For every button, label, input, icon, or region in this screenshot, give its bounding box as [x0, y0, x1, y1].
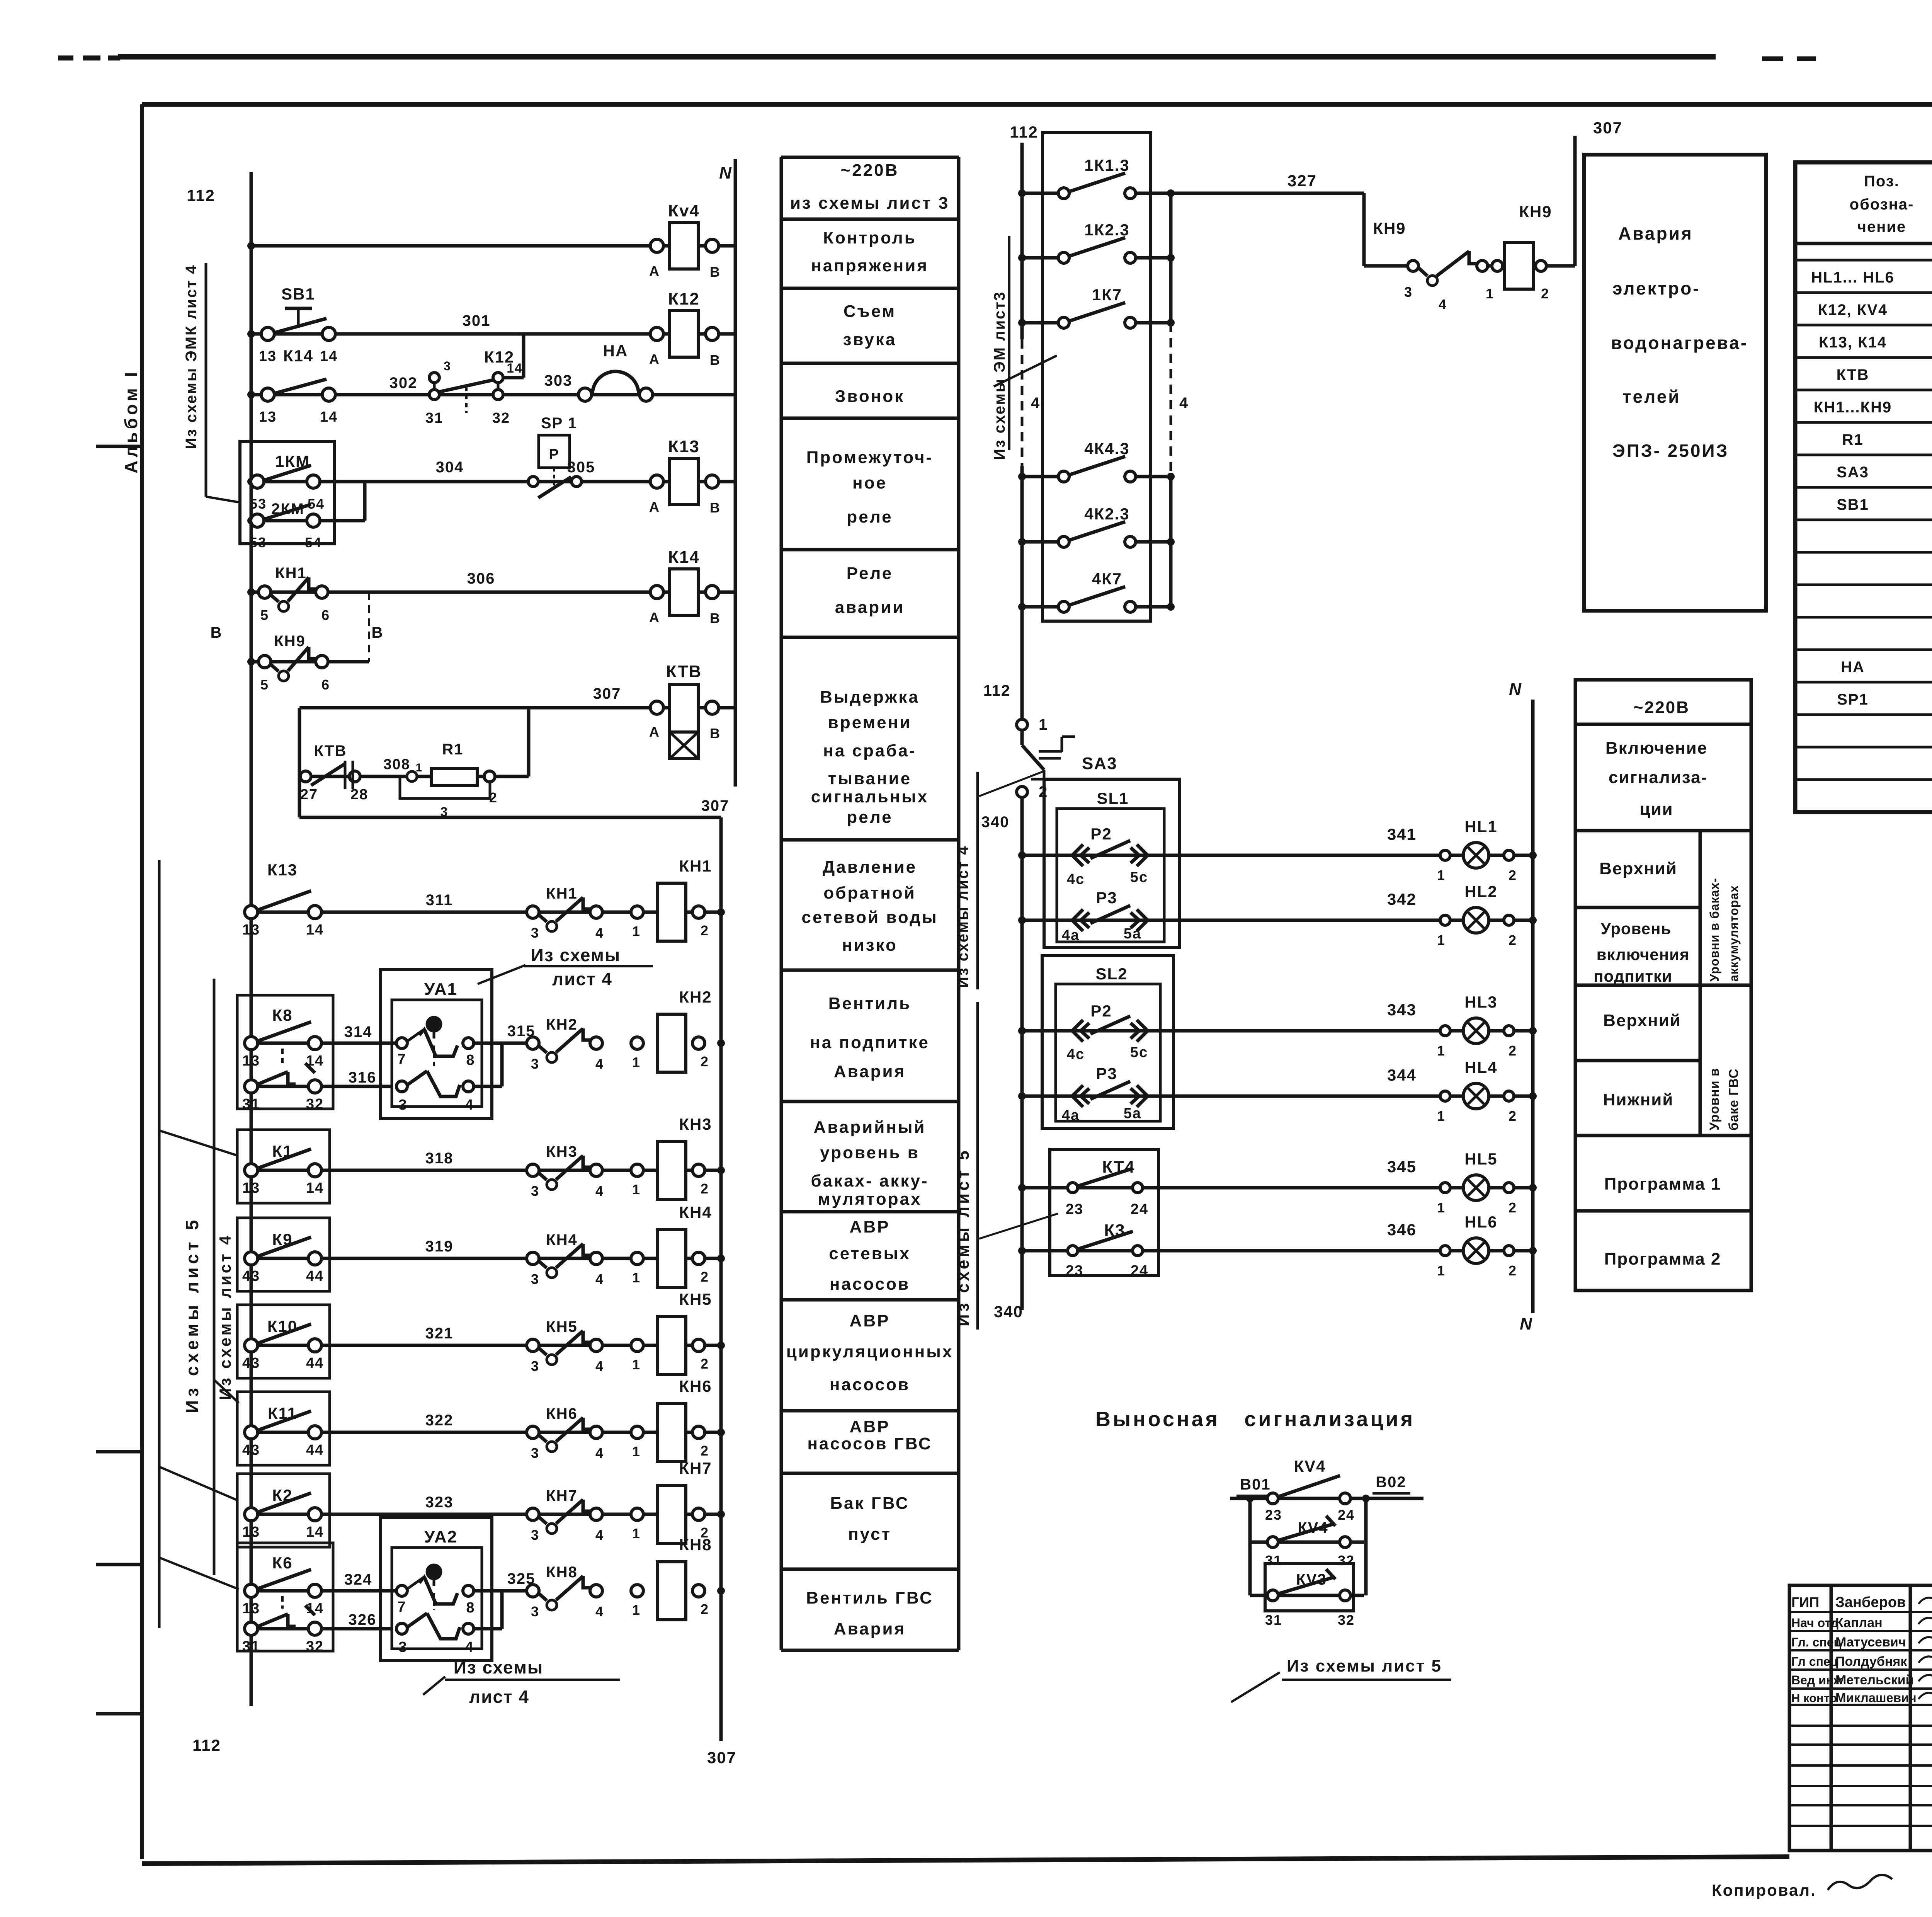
svg-text:SA3: SA3 — [1837, 464, 1869, 481]
svg-text:КV4: КV4 — [1294, 1457, 1326, 1475]
svg-text:2: 2 — [1509, 1108, 1517, 1124]
svg-text:311: 311 — [426, 892, 453, 909]
svg-text:1: 1 — [632, 1444, 641, 1459]
svg-text:КН9: КН9 — [274, 633, 306, 650]
svg-text:44: 44 — [306, 1442, 324, 1458]
svg-text:14: 14 — [306, 1053, 324, 1069]
svg-text:24: 24 — [1131, 1263, 1148, 1279]
svg-text:Выносная сигнализация: Выносная сигнализация — [1095, 1408, 1415, 1431]
svg-text:23: 23 — [1265, 1507, 1282, 1523]
svg-text:КV3: КV3 — [1296, 1571, 1327, 1588]
svg-text:К9: К9 — [272, 1230, 293, 1248]
svg-text:К14: К14 — [668, 548, 700, 567]
svg-text:КН4: КН4 — [679, 1203, 712, 1221]
svg-text:54: 54 — [305, 535, 322, 550]
svg-text:телей: телей — [1622, 386, 1681, 407]
svg-text:5: 5 — [260, 607, 269, 623]
svg-text:23: 23 — [1066, 1201, 1083, 1217]
svg-text:5: 5 — [260, 677, 269, 693]
svg-text:1: 1 — [1437, 1263, 1446, 1279]
svg-text:43: 43 — [242, 1268, 260, 1284]
svg-text:Звонок: Звонок — [835, 387, 905, 406]
svg-text:6: 6 — [321, 607, 330, 623]
svg-text:13: 13 — [242, 1524, 260, 1540]
svg-text:SL2: SL2 — [1095, 965, 1128, 983]
svg-text:Из схемы лист 5: Из схемы лист 5 — [954, 1148, 973, 1326]
svg-text:Уровни в баках-: Уровни в баках- — [1708, 878, 1721, 982]
svg-text:2: 2 — [701, 1601, 709, 1617]
svg-text:КТ4: КТ4 — [1102, 1158, 1135, 1176]
svg-text:подпитки: подпитки — [1594, 967, 1672, 985]
svg-text:1К1.3: 1К1.3 — [1084, 156, 1129, 174]
svg-text:SB1: SB1 — [281, 285, 315, 303]
svg-text:Р3: Р3 — [1096, 889, 1117, 907]
svg-text:N: N — [1509, 680, 1522, 699]
svg-text:Миклашевич: Миклашевич — [1835, 1691, 1917, 1705]
svg-text:КН6: КН6 — [679, 1377, 712, 1395]
svg-text:Авария: Авария — [834, 1062, 906, 1081]
svg-text:КН2: КН2 — [546, 1016, 578, 1033]
svg-text:2: 2 — [1509, 1200, 1517, 1216]
svg-text:1: 1 — [1437, 1043, 1446, 1059]
svg-text:1: 1 — [632, 1525, 641, 1541]
svg-text:303: 303 — [544, 372, 573, 389]
svg-text:пуст: пуст — [848, 1525, 891, 1544]
svg-text:1: 1 — [632, 1182, 641, 1197]
svg-text:2: 2 — [1039, 783, 1048, 800]
svg-text:304: 304 — [436, 459, 464, 476]
svg-text:КН1: КН1 — [275, 565, 307, 582]
svg-text:SA3: SA3 — [1082, 754, 1117, 773]
svg-text:SB1: SB1 — [1837, 496, 1869, 513]
svg-text:8: 8 — [466, 1600, 475, 1616]
svg-text:14: 14 — [320, 409, 338, 425]
svg-text:54: 54 — [308, 496, 325, 512]
svg-text:Копировал.: Копировал. — [1712, 1881, 1816, 1899]
svg-text:1: 1 — [1437, 1108, 1446, 1124]
svg-text:6: 6 — [321, 677, 330, 693]
svg-text:2: 2 — [1509, 932, 1517, 948]
svg-text:баках- акку-: баках- акку- — [811, 1171, 929, 1190]
svg-text:Из схемы ЭМК лист 4: Из схемы ЭМК лист 4 — [183, 264, 200, 449]
svg-text:3: 3 — [531, 1183, 539, 1199]
svg-text:5а: 5а — [1124, 926, 1141, 942]
svg-text:3: 3 — [531, 1358, 539, 1374]
svg-text:4: 4 — [465, 1639, 474, 1655]
svg-text:КН3: КН3 — [679, 1115, 712, 1133]
svg-text:HL2: HL2 — [1464, 882, 1497, 901]
svg-text:Кv4: Кv4 — [668, 201, 700, 220]
svg-text:13: 13 — [259, 409, 277, 425]
svg-text:2КМ: 2КМ — [271, 501, 304, 518]
svg-text:5а: 5а — [1124, 1105, 1141, 1122]
svg-text:КТВ: КТВ — [666, 662, 702, 681]
svg-text:4с: 4с — [1067, 1046, 1085, 1062]
svg-text:4а: 4а — [1062, 927, 1080, 943]
svg-text:3: 3 — [531, 1527, 539, 1543]
svg-text:чение: чение — [1857, 218, 1906, 235]
svg-text:7: 7 — [397, 1599, 406, 1615]
svg-text:3: 3 — [531, 1445, 539, 1461]
svg-text:1К2.3: 1К2.3 — [1084, 221, 1129, 239]
svg-text:циркуляционных: циркуляционных — [786, 1342, 954, 1361]
svg-text:К2: К2 — [272, 1486, 293, 1504]
svg-text:К12, КV4: К12, КV4 — [1818, 301, 1888, 318]
svg-text:К3: К3 — [1104, 1221, 1125, 1240]
svg-text:325: 325 — [507, 1570, 536, 1587]
svg-text:SP1: SP1 — [1837, 691, 1869, 708]
svg-text:КН2: КН2 — [679, 988, 712, 1006]
svg-text:КН5: КН5 — [679, 1290, 712, 1308]
svg-text:44: 44 — [306, 1355, 324, 1371]
svg-text:4: 4 — [1031, 395, 1040, 412]
svg-text:Гл. спец: Гл. спец — [1791, 1635, 1842, 1649]
svg-text:2: 2 — [701, 1356, 709, 1372]
svg-text:28: 28 — [350, 787, 368, 803]
svg-text:КН7: КН7 — [546, 1487, 578, 1504]
svg-text:5с: 5с — [1130, 869, 1148, 885]
svg-text:24: 24 — [1338, 1507, 1355, 1523]
svg-text:SP 1: SP 1 — [541, 415, 577, 432]
svg-text:включения: включения — [1597, 945, 1690, 964]
svg-text:КН9: КН9 — [1519, 203, 1552, 221]
svg-text:4К7: 4К7 — [1092, 570, 1122, 588]
svg-text:24: 24 — [1131, 1201, 1148, 1217]
svg-text:2: 2 — [701, 1443, 709, 1459]
svg-text:4: 4 — [595, 1056, 604, 1072]
svg-text:112: 112 — [187, 186, 215, 204]
svg-text:3: 3 — [444, 359, 451, 373]
svg-text:13: 13 — [259, 348, 277, 364]
svg-text:306: 306 — [467, 570, 495, 587]
svg-text:Каплан: Каплан — [1835, 1616, 1883, 1630]
svg-text:Авария: Авария — [1618, 223, 1693, 243]
svg-text:315: 315 — [507, 1023, 536, 1040]
svg-text:Уровни в: Уровни в — [1707, 1068, 1722, 1130]
svg-text:5с: 5с — [1130, 1044, 1148, 1061]
svg-text:обратной: обратной — [823, 884, 916, 902]
svg-text:N: N — [719, 163, 732, 182]
svg-text:2: 2 — [1509, 1043, 1517, 1059]
svg-text:HL1: HL1 — [1464, 817, 1497, 836]
svg-text:R1: R1 — [442, 741, 463, 758]
svg-text:КТВ: КТВ — [1837, 366, 1869, 383]
svg-text:14: 14 — [306, 922, 324, 938]
svg-text:346: 346 — [1387, 1221, 1417, 1239]
svg-text:HL1... HL6: HL1... HL6 — [1811, 269, 1895, 286]
svg-text:Давление: Давление — [823, 858, 917, 877]
svg-text:Матусевич: Матусевич — [1835, 1635, 1906, 1650]
svg-text:Поз.: Поз. — [1864, 173, 1900, 190]
svg-text:В: В — [372, 624, 384, 641]
svg-text:насосов ГВС: насосов ГВС — [807, 1434, 932, 1453]
svg-text:13: 13 — [242, 1600, 260, 1617]
svg-text:Программа 2: Программа 2 — [1604, 1250, 1721, 1268]
svg-text:1КМ: 1КМ — [275, 452, 310, 470]
svg-text:44: 44 — [306, 1268, 324, 1284]
svg-text:КН6: КН6 — [546, 1405, 578, 1422]
svg-text:4К4.3: 4К4.3 — [1084, 439, 1129, 458]
svg-text:2: 2 — [701, 1181, 709, 1197]
svg-text:307: 307 — [593, 685, 621, 702]
svg-text:аварии: аварии — [835, 598, 905, 617]
svg-text:ГИП: ГИП — [1791, 1594, 1819, 1610]
svg-text:В: В — [710, 500, 721, 516]
svg-text:HL4: HL4 — [1464, 1058, 1497, 1076]
svg-text:2: 2 — [1541, 286, 1549, 301]
svg-text:реле: реле — [847, 507, 893, 526]
svg-text:насосов: насосов — [830, 1375, 910, 1394]
svg-text:лист 4: лист 4 — [552, 969, 612, 989]
svg-text:308: 308 — [383, 756, 410, 773]
svg-text:Вед инж: Вед инж — [1791, 1673, 1842, 1687]
svg-text:1: 1 — [632, 1602, 641, 1618]
svg-text:3: 3 — [531, 1056, 539, 1072]
svg-text:В: В — [710, 610, 721, 626]
svg-text:сетевых: сетевых — [829, 1244, 910, 1263]
svg-text:112: 112 — [192, 1736, 221, 1754]
svg-text:1: 1 — [632, 1054, 641, 1070]
svg-text:Авария: Авария — [834, 1619, 906, 1638]
svg-text:АВР: АВР — [850, 1311, 890, 1330]
svg-text:КТВ: КТВ — [314, 742, 347, 759]
svg-text:340: 340 — [981, 814, 1010, 831]
svg-text:лист 4: лист 4 — [469, 1687, 529, 1707]
svg-text:Из схемы ЭМ лист3: Из схемы ЭМ лист3 — [991, 291, 1008, 460]
svg-text:КН5: КН5 — [546, 1318, 578, 1335]
svg-text:обозна-: обозна- — [1850, 196, 1914, 213]
svg-text:К1: К1 — [272, 1142, 293, 1160]
svg-text:Из схемы лист 5: Из схемы лист 5 — [1287, 1657, 1442, 1675]
svg-text:3: 3 — [531, 1604, 539, 1619]
svg-text:НА: НА — [603, 342, 628, 360]
svg-text:112: 112 — [983, 682, 1011, 699]
svg-text:КV4: КV4 — [1298, 1519, 1328, 1536]
svg-text:HL6: HL6 — [1464, 1213, 1497, 1231]
svg-text:Нач отд: Нач отд — [1791, 1616, 1838, 1630]
svg-text:326: 326 — [349, 1611, 377, 1628]
svg-text:Программа 1: Программа 1 — [1604, 1175, 1721, 1193]
svg-text:4: 4 — [595, 1271, 604, 1287]
svg-text:2: 2 — [701, 1269, 709, 1285]
svg-text:2: 2 — [1509, 1263, 1517, 1279]
svg-text:13: 13 — [242, 1180, 260, 1196]
svg-text:В: В — [710, 725, 721, 741]
svg-text:Р3: Р3 — [1096, 1064, 1117, 1083]
svg-text:14: 14 — [306, 1524, 324, 1540]
svg-text:Полдубняк: Полдубняк — [1835, 1654, 1907, 1669]
svg-text:аккумуляторах: аккумуляторах — [1727, 885, 1741, 982]
svg-text:напряжения: напряжения — [811, 256, 929, 275]
svg-text:Из схемы лист 5: Из схемы лист 5 — [182, 1217, 202, 1413]
svg-text:муляторах: муляторах — [818, 1190, 922, 1209]
svg-text:4: 4 — [595, 1527, 604, 1543]
svg-text:КН7: КН7 — [679, 1459, 712, 1477]
svg-text:К13: К13 — [668, 437, 700, 456]
svg-text:SL1: SL1 — [1097, 789, 1129, 807]
svg-text:ции: ции — [1639, 800, 1673, 819]
svg-text:Включение: Включение — [1605, 739, 1708, 758]
svg-text:316: 316 — [349, 1069, 377, 1086]
svg-text:Верхний: Верхний — [1599, 859, 1677, 878]
svg-text:32: 32 — [306, 1638, 324, 1655]
svg-text:2: 2 — [701, 1054, 709, 1069]
svg-text:4а: 4а — [1062, 1107, 1080, 1124]
svg-text:307: 307 — [701, 797, 730, 814]
svg-text:302: 302 — [389, 375, 418, 392]
svg-text:327: 327 — [1287, 172, 1317, 190]
svg-text:К10: К10 — [267, 1317, 298, 1335]
svg-text:В02: В02 — [1376, 1474, 1406, 1491]
svg-text:В01: В01 — [1240, 1476, 1270, 1493]
svg-text:К12: К12 — [668, 289, 700, 308]
svg-text:АВР: АВР — [850, 1417, 890, 1436]
svg-text:УА1: УА1 — [424, 980, 457, 999]
svg-text:4: 4 — [1439, 296, 1447, 312]
svg-text:307: 307 — [707, 1748, 736, 1767]
svg-text:электро-: электро- — [1612, 278, 1701, 298]
svg-text:Из схемы лист 4: Из схемы лист 4 — [216, 1233, 234, 1400]
svg-text:2: 2 — [701, 923, 709, 938]
svg-text:КН8: КН8 — [679, 1536, 712, 1554]
svg-text:Вентиль: Вентиль — [828, 994, 911, 1013]
svg-text:В: В — [710, 352, 721, 368]
svg-text:4: 4 — [595, 1183, 604, 1199]
svg-text:Реле: Реле — [847, 564, 893, 583]
svg-text:2: 2 — [489, 790, 498, 805]
svg-text:уровень в: уровень в — [820, 1143, 919, 1162]
svg-text:Занберов: Занберов — [1835, 1594, 1906, 1611]
svg-text:А: А — [649, 351, 660, 367]
svg-text:HL5: HL5 — [1464, 1150, 1497, 1168]
svg-text:тывание: тывание — [828, 769, 912, 788]
svg-text:1: 1 — [632, 1357, 641, 1372]
svg-text:Выдержка: Выдержка — [820, 688, 920, 707]
svg-text:Нижний: Нижний — [1603, 1090, 1674, 1109]
svg-text:Бак ГВС: Бак ГВС — [830, 1494, 909, 1513]
svg-text:Метельский: Метельский — [1835, 1673, 1914, 1687]
svg-text:8: 8 — [466, 1052, 475, 1068]
svg-text:HL3: HL3 — [1464, 993, 1497, 1011]
svg-text:КН8: КН8 — [546, 1564, 578, 1581]
svg-text:Съем: Съем — [844, 302, 896, 321]
svg-text:305: 305 — [567, 459, 595, 476]
svg-text:К13: К13 — [267, 861, 298, 879]
svg-text:43: 43 — [242, 1442, 260, 1458]
svg-text:32: 32 — [1338, 1612, 1355, 1628]
svg-text:А: А — [649, 263, 660, 279]
svg-text:насосов: насосов — [830, 1275, 910, 1294]
svg-text:сетевой воды: сетевой воды — [801, 908, 938, 927]
svg-text:Из схемы лист 4: Из схемы лист 4 — [954, 845, 971, 988]
svg-text:3: 3 — [398, 1639, 407, 1655]
svg-text:Из схемы: Из схемы — [531, 945, 621, 965]
svg-text:53: 53 — [250, 535, 267, 550]
svg-text:Верхний: Верхний — [1603, 1011, 1681, 1030]
svg-text:314: 314 — [344, 1023, 372, 1040]
svg-text:13: 13 — [242, 922, 260, 938]
svg-text:43: 43 — [242, 1355, 260, 1371]
svg-text:1: 1 — [1437, 1200, 1446, 1216]
svg-text:Уровень: Уровень — [1601, 919, 1672, 938]
svg-text:1: 1 — [1437, 932, 1446, 948]
svg-text:14: 14 — [320, 348, 338, 364]
svg-text:К14: К14 — [283, 347, 313, 365]
svg-text:Р: Р — [549, 446, 559, 463]
svg-text:318: 318 — [425, 1150, 454, 1167]
svg-text:324: 324 — [344, 1571, 372, 1588]
svg-text:13: 13 — [242, 1053, 260, 1069]
svg-text:4: 4 — [595, 1445, 604, 1461]
svg-text:32: 32 — [306, 1096, 324, 1112]
svg-text:~220В: ~220В — [841, 161, 899, 180]
svg-text:~220В: ~220В — [1633, 698, 1690, 717]
svg-text:на подпитке: на подпитке — [810, 1033, 930, 1052]
svg-text:14: 14 — [306, 1600, 324, 1617]
svg-text:Альбом I: Альбом I — [121, 369, 141, 473]
svg-text:КН3: КН3 — [546, 1143, 578, 1160]
svg-text:4: 4 — [1179, 395, 1189, 412]
svg-text:1: 1 — [1437, 867, 1446, 883]
svg-text:А: А — [649, 499, 660, 515]
svg-text:307: 307 — [1593, 119, 1622, 137]
svg-text:3: 3 — [531, 1271, 539, 1287]
svg-text:301: 301 — [463, 312, 491, 329]
svg-text:4: 4 — [595, 1604, 604, 1619]
svg-text:31: 31 — [1265, 1612, 1282, 1628]
svg-text:А: А — [649, 724, 660, 740]
svg-text:А: А — [649, 609, 660, 625]
svg-text:ное: ное — [852, 473, 887, 492]
svg-text:УА2: УА2 — [424, 1527, 457, 1546]
svg-text:К8: К8 — [272, 1006, 293, 1024]
svg-text:23: 23 — [1066, 1263, 1083, 1279]
svg-text:3: 3 — [1404, 284, 1413, 300]
svg-text:322: 322 — [425, 1412, 454, 1429]
svg-text:323: 323 — [425, 1494, 454, 1511]
svg-text:баке ГВС: баке ГВС — [1726, 1069, 1741, 1130]
svg-text:4: 4 — [465, 1097, 474, 1113]
svg-text:В: В — [710, 264, 721, 280]
svg-text:водонагрева-: водонагрева- — [1611, 333, 1748, 353]
svg-text:АВР: АВР — [850, 1217, 890, 1236]
svg-text:1: 1 — [632, 1270, 641, 1285]
svg-text:КН1...КН9: КН1...КН9 — [1814, 399, 1892, 416]
svg-text:реле: реле — [847, 808, 893, 827]
svg-text:4: 4 — [595, 925, 604, 941]
svg-text:31: 31 — [242, 1638, 260, 1655]
svg-text:1К7: 1К7 — [1092, 286, 1122, 304]
svg-text:Н контр: Н контр — [1791, 1691, 1837, 1705]
svg-text:Гл спец: Гл спец — [1791, 1655, 1838, 1668]
svg-text:низко: низко — [842, 936, 898, 955]
svg-text:4: 4 — [595, 1358, 604, 1374]
svg-text:3: 3 — [531, 925, 539, 941]
svg-text:КН9: КН9 — [1373, 219, 1406, 237]
svg-text:1: 1 — [416, 761, 423, 774]
svg-text:1: 1 — [1486, 286, 1494, 301]
svg-text:Промежуточ-: Промежуточ- — [806, 448, 933, 467]
svg-text:из схемы лист 3: из схемы лист 3 — [790, 194, 949, 213]
svg-text:31: 31 — [242, 1096, 260, 1112]
svg-text:321: 321 — [425, 1325, 454, 1342]
svg-text:344: 344 — [1387, 1066, 1417, 1084]
svg-text:345: 345 — [1387, 1158, 1417, 1176]
svg-text:звука: звука — [843, 330, 897, 349]
svg-text:341: 341 — [1387, 825, 1417, 843]
svg-text:Р2: Р2 — [1090, 825, 1112, 843]
svg-text:14: 14 — [507, 361, 523, 376]
